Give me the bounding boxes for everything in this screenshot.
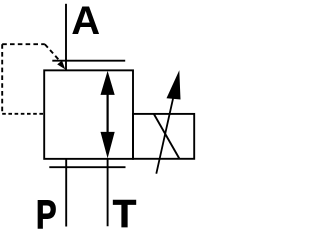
throttle diagonal line (154, 114, 180, 159)
spool double arrow shaft (106, 80, 108, 150)
pilot line box (dashed) top edge (2, 43, 45, 45)
valve body (main box) (44, 70, 133, 159)
pilot line dashed diagonal (45, 44, 59, 60)
adjustment arrow shaft (156, 92, 174, 174)
pilot line box (dashed) left edge (1, 44, 3, 114)
pilot arrowhead (57, 61, 65, 70)
wire: lower ports rail (49, 166, 125, 168)
wire: upper channel line (52, 60, 125, 62)
spool arrowhead down (101, 132, 115, 159)
pilot line box (dashed) bottom edge (2, 113, 44, 115)
wire: port P vertical line (65, 159, 67, 227)
svg-text:T: T (113, 193, 137, 235)
svg-text:P: P (36, 192, 57, 235)
svg-text:A: A (71, 0, 100, 43)
spool arrowhead up (101, 71, 115, 95)
wire: port A vertical line (65, 4, 67, 70)
adjustment arrowhead (167, 70, 181, 99)
throttle box (133, 114, 194, 159)
wire: port T vertical line (107, 159, 109, 227)
